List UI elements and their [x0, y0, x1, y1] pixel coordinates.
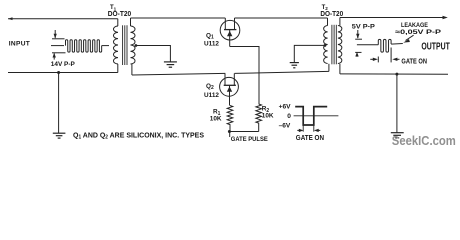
- svg-text:Q1: Q1: [206, 32, 214, 40]
- transformer T2: [324, 25, 342, 65]
- svg-text:Q2: Q2: [206, 83, 214, 91]
- wire bottom rail output: [340, 73, 448, 75]
- svg-text:+6V: +6V: [279, 103, 292, 110]
- svg-text:Q1 AND Q2 ARE SILICONIX, INC.: Q1 AND Q2 ARE SILICONIX, INC. TYPES: [73, 130, 204, 140]
- node input arrow tip: [8, 17, 13, 20]
- svg-text:≈0,05V P-P: ≈0,05V P-P: [395, 29, 442, 36]
- wire T1 secondary bottom riser: [131, 64, 133, 75]
- wire T2 secondary top riser: [339, 18, 341, 26]
- wire bottom rail input side: [8, 72, 118, 74]
- wire T2 primary bottom riser: [328, 64, 330, 72]
- svg-text:0: 0: [287, 113, 291, 120]
- wire gate pulse line: [229, 131, 258, 133]
- node output arrow: [443, 16, 448, 19]
- node ground junction left: [57, 71, 60, 74]
- gate pulse waveform: [294, 107, 339, 133]
- wire Q1 gate to R2: [230, 47, 259, 105]
- svg-text:DO-T20: DO-T20: [320, 9, 343, 18]
- wire ground riser right: [396, 74, 398, 132]
- svg-text:INPUT: INPUT: [9, 41, 30, 48]
- wire T1 primary bottom riser: [117, 64, 119, 73]
- ground G2: [290, 63, 299, 68]
- wire ground riser left: [58, 73, 60, 134]
- svg-text:LEAKAGE: LEAKAGE: [401, 22, 428, 29]
- node ground junction right: [395, 73, 398, 76]
- wire top rail T1 to Q1: [131, 17, 226, 19]
- node gate pulse junction: [228, 130, 231, 133]
- svg-text:10K: 10K: [210, 116, 222, 123]
- svg-text:GATE PULSE: GATE PULSE: [231, 136, 268, 143]
- node T1 center tap: [135, 44, 138, 47]
- input waveform annotation: [51, 30, 109, 60]
- transistor Q2: [220, 73, 239, 105]
- ground G4: [53, 133, 66, 138]
- resistor R2: [256, 104, 262, 132]
- wire T2 secondary bottom riser: [339, 64, 341, 74]
- wire bottom rail T1 to Q2: [132, 73, 225, 75]
- wire bottom rail Q2 to T2: [235, 71, 329, 73]
- wire T2 primary top riser: [327, 18, 329, 26]
- svg-text:DO-T20: DO-T20: [108, 9, 131, 18]
- wire top rail output: [340, 17, 444, 19]
- svg-text:GATE ON: GATE ON: [401, 59, 427, 66]
- svg-text:10K: 10K: [262, 113, 274, 120]
- leakage leader arrow: [406, 35, 414, 40]
- resistor R1: [227, 106, 233, 132]
- svg-text:U112: U112: [204, 92, 219, 99]
- wire T1 tap to ground: [136, 46, 171, 62]
- svg-text:14V P-P: 14V P-P: [51, 61, 76, 68]
- transformer T1: [113, 25, 135, 65]
- svg-text:–6V: –6V: [279, 122, 291, 129]
- ground G1: [164, 62, 177, 67]
- svg-text:U112: U112: [204, 41, 219, 48]
- ground G3: [391, 133, 404, 138]
- svg-text:5V P-P: 5V P-P: [352, 23, 376, 30]
- wire top rail input side: [8, 18, 118, 20]
- wire T2 tap to ground: [294, 45, 325, 62]
- wire gate pulse tick: [229, 132, 231, 138]
- output waveform annotation: [355, 30, 403, 62]
- wire top rail Q1 to T2: [235, 17, 328, 19]
- transistor Q1: [220, 18, 240, 47]
- svg-text:SeekIC.com: SeekIC.com: [392, 134, 456, 148]
- node T2 center tap: [324, 44, 327, 47]
- wire T1 primary top riser: [117, 19, 119, 26]
- wire T1 secondary top riser: [130, 18, 132, 26]
- svg-text:GATE ON: GATE ON: [296, 135, 324, 142]
- svg-text:OUTPUT: OUTPUT: [421, 42, 449, 53]
